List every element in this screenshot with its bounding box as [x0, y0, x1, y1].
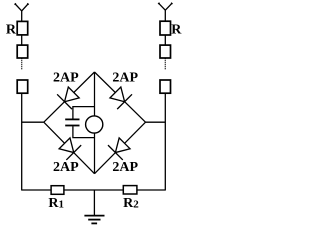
svg-text:2AP: 2AP	[112, 160, 138, 175]
wire capacitor branch top	[73, 107, 95, 119]
box 3 right (stage)	[160, 80, 171, 93]
dotted continuation left	[21, 58, 23, 70]
ground bar 3	[91, 222, 97, 224]
svg-text:R: R	[6, 22, 17, 37]
capacitor plate bottom	[65, 125, 79, 127]
wire bottom rail	[22, 189, 166, 191]
capacitor plate top	[65, 118, 79, 120]
wire right feed to bridge right vertex	[146, 121, 166, 123]
diode D3 bottom-left 2AP	[59, 138, 81, 160]
resistor box R left (box 1)	[17, 21, 28, 35]
antenna right	[158, 3, 172, 11]
resistor box R right (box 1)	[160, 21, 171, 35]
box 2 right (stage)	[160, 45, 171, 58]
wire left column down to bottom rail	[21, 93, 23, 190]
wire bridge side bottom-right	[95, 122, 146, 174]
wire antenna right stem	[164, 10, 166, 21]
wire between left box1 and box2	[21, 35, 23, 45]
wire antenna left stem	[21, 11, 23, 22]
box 2 left (stage)	[17, 45, 28, 58]
resistor R2	[123, 186, 137, 194]
wire left feed to bridge left vertex	[22, 121, 44, 123]
ground stem	[93, 190, 95, 216]
diode D1 top-left 2AP	[57, 87, 79, 109]
wire bridge side bottom-left	[44, 122, 95, 174]
wire bridge center vertical top	[94, 72, 96, 116]
svg-text:2AP: 2AP	[53, 160, 79, 175]
svg-text:2AP: 2AP	[53, 70, 79, 85]
ground bar 2	[88, 219, 100, 221]
svg-text:R2: R2	[123, 196, 139, 211]
wire bridge center vertical bottom	[94, 133, 96, 174]
wire capacitor branch bottom	[73, 126, 95, 137]
svg-text:R1: R1	[48, 196, 64, 211]
wire bridge side top-right	[95, 72, 146, 122]
svg-text:2AP: 2AP	[112, 70, 138, 85]
antenna left	[15, 3, 29, 11]
wire right column down to bottom rail	[164, 93, 166, 190]
resistor R1	[51, 186, 64, 195]
diode D4 bottom-right 2AP	[108, 138, 130, 160]
ground bar 1	[84, 215, 104, 217]
wire between right box1 and box2	[164, 35, 166, 45]
meter circle	[86, 116, 103, 133]
diode D2 top-right 2AP	[110, 87, 132, 109]
wire bridge side top-left	[44, 72, 95, 122]
dotted continuation right	[164, 58, 166, 70]
svg-text:R: R	[171, 22, 182, 37]
box 3 left (stage)	[17, 80, 28, 93]
